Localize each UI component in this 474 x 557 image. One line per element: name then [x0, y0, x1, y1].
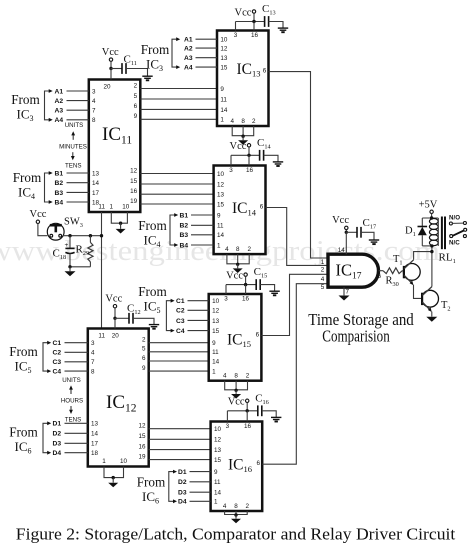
svg-text:Comparision: Comparision: [322, 326, 390, 345]
Vcc terminal SW3: [36, 220, 39, 223]
svg-text:8: 8: [92, 117, 96, 124]
svg-text:A3: A3: [184, 55, 193, 62]
wire IC11 out 9 to IC13: [140, 118, 217, 120]
svg-text:N/C: N/C: [449, 240, 460, 247]
svg-text:A1: A1: [55, 88, 64, 95]
svg-text:A2: A2: [184, 46, 193, 53]
svg-text:D3: D3: [178, 490, 187, 497]
svg-text:UNITS: UNITS: [65, 122, 84, 129]
svg-text:1: 1: [220, 117, 224, 124]
wire Vcc node: [236, 21, 265, 23]
wire SW3 to latch enable node: [63, 235, 102, 237]
wire D2: [65, 432, 88, 434]
svg-text:D1: D1: [178, 469, 187, 476]
wire B4: [67, 201, 89, 203]
wire C17 to ground: [361, 232, 374, 239]
wire C18 to ground node: [69, 254, 71, 267]
svg-text:IC5: IC5: [144, 298, 161, 315]
svg-text:3: 3: [224, 296, 228, 303]
wire D4: [65, 452, 88, 454]
svg-text:6: 6: [260, 203, 264, 210]
svg-text:10: 10: [214, 426, 222, 433]
wire IC11 out 19 to IC14: [140, 203, 213, 205]
wire IC16 pin 6 to IC17 pin 5: [262, 284, 328, 465]
svg-text:10: 10: [120, 458, 128, 465]
svg-text:C2: C2: [53, 350, 62, 357]
wire Vcc node IC11: [109, 67, 112, 70]
capacitor C12: [115, 317, 129, 319]
svg-text:5: 5: [134, 93, 138, 100]
bracket From IC6: [169, 472, 174, 502]
capacitor C17: [346, 231, 357, 233]
svg-text:C1: C1: [53, 340, 62, 347]
ground: [233, 268, 243, 273]
svg-text:7: 7: [92, 108, 96, 115]
svg-text:C15: C15: [254, 266, 268, 280]
svg-text:15: 15: [220, 65, 228, 72]
svg-text:10: 10: [217, 171, 225, 178]
bracket From IC6: [43, 423, 48, 452]
svg-text:1: 1: [321, 259, 325, 266]
svg-text:B4: B4: [180, 242, 189, 249]
wire to pin 3: [235, 22, 237, 31]
svg-text:SW3: SW3: [64, 217, 83, 230]
svg-text:15: 15: [214, 457, 222, 464]
svg-text:2: 2: [134, 82, 138, 89]
relay contact N/C: [450, 235, 453, 238]
svg-text:+5V: +5V: [419, 200, 438, 211]
svg-text:B2: B2: [180, 223, 189, 230]
svg-text:1: 1: [110, 204, 114, 211]
svg-text:A4: A4: [55, 117, 64, 124]
svg-text:10: 10: [122, 204, 130, 211]
Vcc terminal IC17: [345, 226, 348, 229]
svg-text:C12: C12: [127, 303, 141, 317]
wire A1: [196, 38, 218, 40]
svg-text:9: 9: [134, 113, 138, 120]
svg-text:From: From: [138, 218, 167, 233]
bracket From IC5: [166, 301, 171, 331]
wire Vcc node: [231, 154, 260, 156]
svg-text:18: 18: [91, 450, 99, 457]
svg-text:19: 19: [130, 198, 138, 205]
wire IC12 pins 1,10 to ground: [104, 467, 124, 478]
svg-text:2: 2: [246, 373, 250, 380]
svg-text:15: 15: [138, 433, 146, 440]
wire cap to ground: [269, 22, 283, 28]
wire Vcc node IC12: [113, 317, 116, 320]
IC U11 quad latch: [89, 80, 141, 213]
capacitor C13: [264, 16, 266, 27]
wire D4: [190, 500, 211, 502]
wire IC11 out 15 to IC14: [140, 183, 213, 185]
svg-text:13: 13: [220, 55, 228, 62]
AND gate IC17: [328, 254, 379, 287]
wire C1: [65, 342, 88, 344]
svg-text:5: 5: [142, 346, 146, 353]
wire cap to ground: [264, 155, 278, 161]
svg-text:9: 9: [220, 86, 224, 93]
wire B2: [67, 182, 89, 184]
ground: [142, 76, 152, 80]
svg-text:11: 11: [217, 223, 224, 230]
svg-text:8: 8: [91, 369, 95, 376]
Vcc terminal for IC1: [246, 399, 249, 402]
wire IC11 out 5 to IC13: [140, 98, 217, 100]
wire IC12 out 15 to IC16: [149, 438, 211, 440]
svg-text:13: 13: [92, 170, 100, 177]
wire D2: [190, 481, 211, 483]
svg-text:C13: C13: [262, 3, 276, 17]
ground: [273, 162, 283, 166]
wire IC11 pin 11 latch enable: [101, 212, 103, 329]
wire IC11 out 2 to IC13: [140, 88, 217, 90]
svg-text:N/O: N/O: [449, 214, 460, 221]
bracket From IC4: [45, 173, 50, 202]
svg-text:RL1: RL1: [439, 252, 456, 266]
svg-text:TENS: TENS: [65, 416, 82, 423]
svg-text:20: 20: [103, 84, 111, 91]
wire to pin 3: [225, 285, 227, 294]
svg-text:1: 1: [212, 369, 216, 376]
wire IC11 pins 1,10 to ground: [111, 212, 127, 223]
wire Vcc to SW3: [38, 224, 47, 236]
wire IC13 pin 6 to IC17 pin 1: [269, 72, 329, 258]
transistor T1: [403, 264, 420, 281]
svg-text:3: 3: [92, 88, 96, 95]
wire C11 to ground: [126, 69, 148, 76]
svg-text:14: 14: [91, 431, 99, 438]
svg-text:Vcc: Vcc: [105, 294, 122, 305]
wire C12 to ground: [133, 318, 154, 324]
svg-text:4: 4: [223, 503, 227, 510]
Vcc terminal IC12: [113, 305, 116, 308]
wire IC16 pins 4,8,2 to ground: [225, 511, 248, 515]
svg-text:11: 11: [212, 349, 219, 356]
svg-text:14: 14: [217, 232, 225, 239]
svg-text:A1: A1: [184, 37, 193, 44]
ground: [426, 317, 437, 322]
wire B4: [191, 244, 214, 246]
wire B3: [67, 191, 89, 193]
wire D1: [65, 422, 88, 424]
svg-text:13: 13: [91, 421, 99, 428]
svg-text:8: 8: [234, 373, 238, 380]
capacitor C14: [259, 150, 261, 161]
wire T1 collector to relay node: [414, 252, 432, 260]
svg-text:C4: C4: [176, 328, 185, 335]
diode D1: [421, 218, 423, 226]
wire B1: [67, 172, 89, 174]
wire IC11 out 16 to IC14: [140, 193, 213, 195]
wire IC12 out 19 to IC16: [149, 459, 211, 461]
bracket From IC4: [170, 215, 175, 245]
Vcc terminal IC11: [109, 58, 112, 61]
svg-text:8: 8: [241, 118, 245, 125]
svg-text:TENS: TENS: [65, 163, 82, 170]
svg-text:From: From: [11, 92, 40, 107]
svg-text:B3: B3: [180, 232, 189, 239]
wire IC15 pin 6 to IC17 pin 4: [261, 274, 328, 335]
wire C1: [188, 300, 209, 302]
wire T2 collector to relay node: [431, 246, 433, 287]
Vcc terminal for IC1: [247, 144, 250, 147]
wire IC14 pins 4,8,2 to ground: [227, 254, 249, 264]
svg-text:12: 12: [138, 423, 146, 430]
ground: [271, 417, 281, 421]
IC U15 comparator: [209, 294, 262, 381]
wire to pin 3: [230, 155, 232, 165]
svg-text:2: 2: [252, 118, 256, 125]
svg-text:Vcc: Vcc: [102, 47, 119, 58]
svg-text:4: 4: [91, 350, 95, 357]
svg-text:A4: A4: [184, 65, 193, 72]
wire D3: [190, 491, 211, 493]
wire C4: [65, 370, 88, 372]
IC U12 quad latch: [88, 329, 149, 467]
resistor R29: [89, 236, 91, 243]
wire to pin 16: [246, 411, 248, 422]
ground: [116, 229, 126, 234]
wire IC12 out 12 to IC16: [149, 428, 211, 430]
arrow up: [70, 388, 72, 394]
svg-text:2: 2: [247, 246, 251, 253]
svg-text:6: 6: [134, 103, 138, 110]
svg-text:D4: D4: [178, 499, 187, 506]
wire IC11 out 12 to IC14: [140, 173, 213, 175]
svg-text:R30: R30: [386, 276, 399, 289]
ground: [108, 483, 118, 488]
svg-text:C3: C3: [53, 359, 62, 366]
IC U14 comparator: [214, 166, 266, 255]
svg-text:Vcc: Vcc: [228, 397, 245, 408]
arrow up: [72, 134, 74, 140]
svg-text:16: 16: [246, 167, 254, 174]
svg-text:D1: D1: [53, 421, 62, 428]
svg-text:11: 11: [98, 204, 105, 211]
capacitor C11: [111, 68, 122, 70]
svg-text:12: 12: [130, 167, 138, 174]
wire IC15 pins 4,8,2 to ground: [225, 381, 248, 390]
svg-text:2: 2: [321, 267, 325, 274]
svg-text:7: 7: [346, 289, 350, 296]
capacitor C16: [257, 405, 259, 416]
svg-text:6: 6: [377, 273, 381, 280]
ground: [369, 240, 379, 244]
wire Vcc node: [227, 410, 257, 412]
Vcc terminal for IC1: [244, 273, 247, 276]
svg-text:2: 2: [142, 337, 146, 344]
svg-text:From: From: [137, 475, 166, 490]
wire T1 emitter to T2 base: [414, 285, 423, 299]
svg-text:6: 6: [256, 460, 260, 467]
svg-text:4: 4: [230, 118, 234, 125]
wire C4: [188, 330, 209, 332]
bracket From IC3: [172, 39, 177, 67]
wire C2: [188, 309, 209, 311]
wire B2: [191, 224, 214, 226]
wire +5V rail: [422, 217, 438, 219]
svg-text:15: 15: [130, 178, 138, 185]
wire IC12 out 5 to IC15: [149, 351, 209, 353]
wire IC12 out 16 to IC16: [149, 449, 211, 451]
svg-text:12: 12: [212, 308, 220, 315]
svg-text:C3: C3: [176, 318, 185, 325]
wire IC17 output pin 6: [379, 270, 383, 272]
svg-text:12: 12: [220, 46, 228, 53]
svg-text:4: 4: [223, 373, 227, 380]
relay core: [441, 217, 443, 250]
svg-text:8: 8: [236, 246, 240, 253]
IC U13 comparator: [217, 31, 269, 127]
svg-text:B2: B2: [55, 180, 64, 187]
wire A4: [67, 119, 89, 121]
svg-text:14: 14: [92, 180, 100, 187]
svg-text:Vcc: Vcc: [229, 141, 246, 152]
svg-text:16: 16: [138, 443, 146, 450]
wire A2: [67, 100, 89, 102]
transistor T2: [422, 290, 439, 307]
svg-text:8: 8: [234, 503, 238, 510]
svg-text:IC3: IC3: [146, 57, 163, 74]
svg-text:16: 16: [244, 423, 252, 430]
svg-text:6: 6: [263, 67, 267, 74]
wire B3: [191, 234, 214, 236]
wire to pin 16: [245, 285, 247, 294]
wire Vcc node IC17: [345, 231, 348, 234]
svg-text:17: 17: [91, 441, 99, 448]
wire IC12 out 6 to IC15: [149, 360, 209, 362]
svg-text:11: 11: [98, 333, 105, 340]
wire cap to ground: [260, 285, 274, 291]
wire C2: [65, 351, 88, 353]
svg-text:3: 3: [229, 167, 233, 174]
svg-text:11: 11: [214, 479, 221, 486]
svg-text:15: 15: [212, 328, 220, 335]
svg-text:From: From: [141, 42, 170, 57]
svg-text:16: 16: [242, 296, 250, 303]
svg-text:1: 1: [217, 242, 221, 249]
wire IC12 out 9 to IC15: [149, 370, 209, 372]
svg-text:C11: C11: [124, 54, 137, 68]
arrow down: [70, 406, 72, 411]
svg-text:UNITS: UNITS: [62, 377, 81, 384]
svg-text:C17: C17: [363, 217, 377, 231]
svg-text:10: 10: [212, 298, 220, 305]
svg-text:IC6: IC6: [15, 439, 32, 456]
svg-text:C16: C16: [255, 392, 269, 406]
wire IC14 pin 6 to IC17 pin 2: [266, 208, 329, 266]
svg-text:From: From: [9, 425, 38, 440]
svg-text:B1: B1: [55, 170, 64, 177]
IC U16 comparator: [211, 422, 263, 512]
svg-text:12: 12: [214, 437, 222, 444]
svg-text:B1: B1: [180, 212, 189, 219]
arrow down: [72, 152, 74, 157]
wire A3: [67, 109, 89, 111]
svg-text:IC3: IC3: [17, 107, 34, 124]
wire IC17 pin 7 to ground: [343, 287, 345, 295]
svg-text:C4: C4: [53, 369, 62, 376]
wire A1: [67, 90, 89, 92]
svg-text:A2: A2: [55, 98, 64, 105]
svg-text:14: 14: [338, 247, 346, 254]
svg-text:2: 2: [245, 503, 249, 510]
svg-text:16: 16: [130, 188, 138, 195]
wire C3: [188, 319, 209, 321]
wire cap to ground: [262, 411, 276, 417]
svg-text:3: 3: [91, 340, 95, 347]
relay coil RL1: [429, 219, 438, 225]
svg-text:4: 4: [92, 98, 96, 105]
svg-text:13: 13: [214, 447, 222, 454]
svg-text:T2: T2: [441, 300, 451, 313]
svg-text:15: 15: [217, 201, 225, 208]
resistor R30: [383, 268, 402, 274]
svg-text:D2: D2: [53, 431, 62, 438]
ground: [278, 28, 288, 32]
wire T2 emitter to ground: [431, 312, 433, 317]
svg-text:10: 10: [220, 37, 228, 44]
svg-text:5: 5: [321, 284, 325, 291]
wire A4: [196, 66, 218, 68]
svg-text:C1: C1: [176, 298, 185, 305]
ground: [238, 140, 248, 145]
svg-text:9: 9: [214, 469, 218, 476]
capacitor C15: [255, 279, 257, 290]
svg-text:B4: B4: [55, 199, 64, 206]
ground: [149, 325, 159, 329]
wire Vcc node: [226, 284, 256, 286]
svg-text:From: From: [13, 170, 42, 185]
switch SW3: [47, 223, 64, 240]
svg-text:14: 14: [220, 107, 228, 114]
svg-text:14: 14: [212, 358, 220, 365]
relay contact common: [464, 228, 467, 231]
svg-text:13: 13: [212, 318, 220, 325]
svg-text:From: From: [9, 344, 38, 359]
svg-text:12: 12: [217, 181, 225, 188]
svg-text:Vcc: Vcc: [30, 209, 47, 220]
svg-text:HOURS: HOURS: [61, 397, 83, 404]
wire to pin 3: [226, 411, 228, 422]
wire to pin 16: [253, 22, 255, 31]
svg-text:6: 6: [142, 355, 146, 362]
wire R29 to ground node: [70, 266, 90, 268]
wire D3: [65, 442, 88, 444]
wire A3: [196, 57, 218, 59]
svg-text:Vcc: Vcc: [332, 215, 349, 226]
svg-text:4: 4: [225, 246, 229, 253]
wire R30 to T1 base: [402, 270, 404, 272]
wire C3: [65, 361, 88, 363]
svg-text:From: From: [138, 284, 167, 299]
svg-text:Vcc: Vcc: [234, 7, 251, 18]
svg-text:16: 16: [251, 32, 259, 39]
svg-text:9: 9: [217, 212, 221, 219]
svg-text:6: 6: [256, 331, 260, 338]
ground: [269, 291, 279, 295]
svg-text:MINUTES: MINUTES: [59, 144, 87, 151]
svg-text:D4: D4: [53, 450, 62, 457]
ground: [231, 394, 241, 399]
svg-text:IC4: IC4: [18, 185, 35, 202]
svg-text:9: 9: [212, 340, 216, 347]
svg-text:19: 19: [138, 453, 146, 460]
svg-text:4: 4: [321, 276, 325, 283]
wire D1 to coil bottom: [422, 245, 432, 247]
svg-text:1: 1: [102, 458, 106, 465]
